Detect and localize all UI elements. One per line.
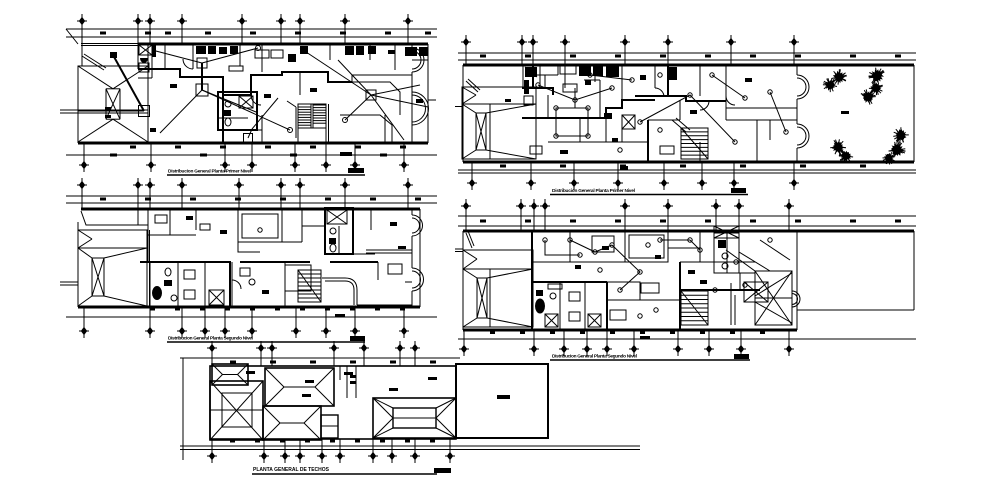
svg-text:Distribucion General Planta Pr: Distribucion General Planta Primer Nivel [168, 169, 251, 175]
svg-text:Distribucion General Planta Pr: Distribucion General Planta Primer Nivel [552, 188, 635, 194]
svg-text:PLANTA GENERAL DE TECHOS: PLANTA GENERAL DE TECHOS [253, 467, 330, 473]
svg-text:Distribucion General Planta Se: Distribucion General Planta Segundo Nive… [552, 354, 637, 360]
svg-text:Distribucion General Planta Se: Distribucion General Planta Segundo Nive… [168, 336, 253, 342]
